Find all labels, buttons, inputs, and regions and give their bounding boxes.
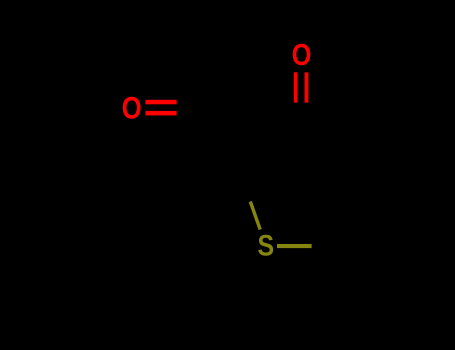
atom O1 (ketone oxygen) [292, 37, 312, 72]
double bond C3=O1, line a [294, 72, 298, 102]
svg-text:O: O [292, 37, 312, 72]
double bond CHO C=O2, top line [145, 100, 176, 105]
bond S1-C2 (diagonal, sulfur half) [250, 202, 260, 230]
atom S1 (ring sulfur) [258, 228, 275, 262]
double bond C3=O1, line b [305, 72, 309, 102]
bond S1-C5 (horizontal, sulfur half) [277, 244, 312, 248]
svg-text:O: O [122, 91, 142, 126]
atom O2 (aldehyde oxygen) [122, 91, 142, 126]
double bond CHO C=O2, bottom line [145, 111, 176, 116]
svg-text:S: S [258, 228, 275, 262]
